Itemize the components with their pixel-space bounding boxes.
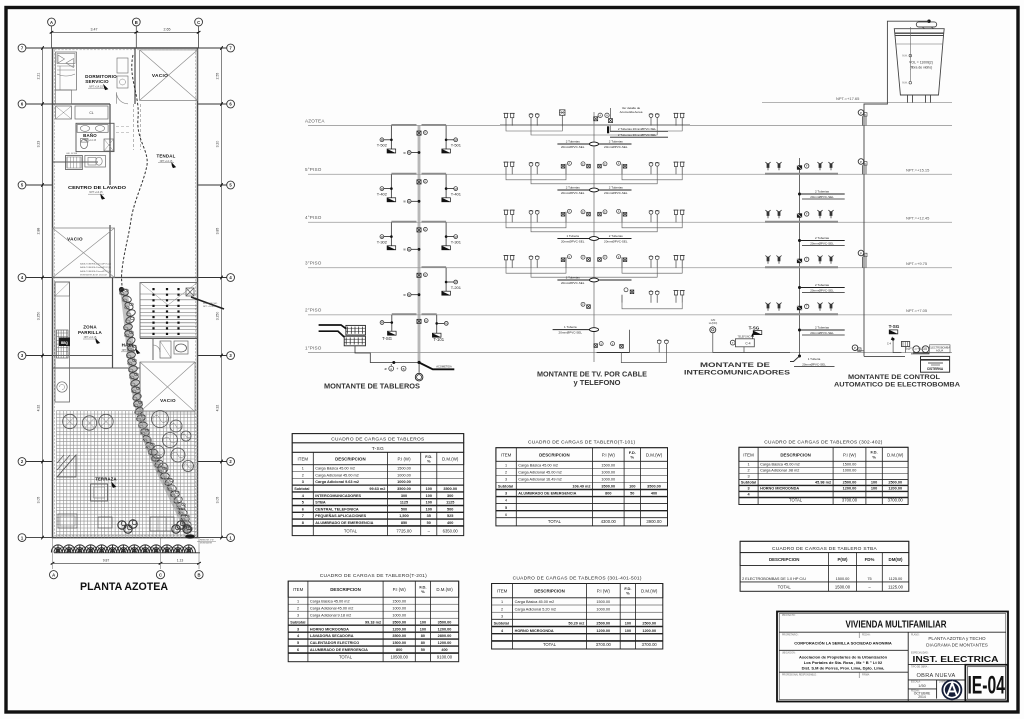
bus meter symbols [417, 131, 421, 135]
svg-text:6: 6 [505, 513, 507, 517]
svg-text:CUADRO DE CARGAS DE TABLER: CUADRO DE CARGAS DE TABLEROS (301-401-50… [513, 576, 642, 582]
svg-text:T-401: T-401 [451, 192, 462, 197]
svg-text:C: C [197, 20, 200, 25]
svg-text:50: 50 [421, 648, 425, 652]
svg-text:%: % [421, 589, 425, 594]
svg-text:(fibra de vidrio): (fibra de vidrio) [910, 65, 933, 69]
svg-text:20mmØPVC-SEL: 20mmØPVC-SEL [604, 240, 628, 244]
svg-text:4.32: 4.32 [215, 405, 219, 412]
svg-text:2.65: 2.65 [164, 28, 171, 32]
svg-text:C/N: C/N [711, 318, 716, 322]
svg-text:1500.00: 1500.00 [392, 641, 406, 645]
terrace tile hatch [56, 411, 197, 538]
svg-text:1: 1 [747, 462, 749, 466]
svg-text:1125: 1125 [446, 501, 454, 505]
electrobomba pumps [913, 346, 920, 353]
svg-text:HALL: HALL [122, 343, 135, 348]
svg-text:1125: 1125 [400, 501, 408, 505]
svg-text:1 Tuberia: 1 Tuberia [564, 325, 577, 329]
svg-text:6: 6 [302, 507, 304, 511]
svg-text:AUTOMATICO DE ELECTROBOMBA: AUTOMATICO DE ELECTROBOMBA [834, 381, 960, 388]
svg-text:D.M.(W): D.M.(W) [442, 457, 459, 462]
svg-text:DIAGRAMA DE MONTANTES: DIAGRAMA DE MONTANTES [926, 643, 988, 648]
svg-text:2 ELECTROBOMBAS DE 1.0 HP: 2 ELECTROBOMBAS DE 1.0 HP C/U [742, 577, 806, 581]
svg-text:VACIO: VACIO [152, 73, 168, 79]
interior wall row6 [53, 103, 111, 105]
bus meter symbols [417, 180, 421, 184]
svg-text:K: K [425, 273, 427, 277]
svg-text:2: 2 [505, 471, 507, 475]
stair balustrade dots [152, 288, 154, 290]
plan row axes circles left [18, 44, 26, 52]
svg-text:ITEM: ITEM [501, 453, 512, 458]
svg-text:2°PISO: 2°PISO [305, 308, 322, 313]
wall above stairs row4 [53, 277, 198, 279]
svg-text:20mmØPVC-SEL: 20mmØPVC-SEL [604, 191, 628, 195]
svg-text:9100.00: 9100.00 [437, 655, 453, 660]
right vertical dimension line [221, 48, 223, 538]
svg-text:1200.00: 1200.00 [596, 629, 610, 633]
svg-text:1000.00: 1000.00 [392, 606, 406, 610]
svg-text:OBRA NUEVA: OBRA NUEVA [917, 673, 956, 679]
svg-text:ITEM: ITEM [298, 457, 309, 462]
sheet number IE-04 box [965, 665, 1007, 702]
plan column axis B [132, 18, 140, 26]
svg-text:CUADRO DE CARGAS DE TABLER: CUADRO DE CARGAS DE TABLERO(T-201) [320, 573, 427, 579]
vacio top-right X box [140, 50, 198, 101]
svg-text:Carga Básica 45.00 m2: Carga Básica 45.00 m2 [515, 600, 555, 604]
svg-text:MONTANTE: MONTANTE [200, 542, 213, 545]
svg-text:Los Portales de Sta. Rosa , Mz: Los Portales de Sta. Rosa , Mz “ B ” Lt … [804, 660, 883, 665]
svg-text:4.32: 4.32 [37, 405, 41, 412]
svg-text:M: M [408, 248, 410, 252]
svg-text:3: 3 [747, 475, 749, 479]
panel T-402 branch [390, 174, 392, 198]
svg-text:Carga Adicional 5.20 m2: Carga Adicional 5.20 m2 [515, 607, 556, 611]
svg-text:P: P [854, 346, 856, 350]
svg-text:1200.00: 1200.00 [642, 629, 656, 633]
svg-text:3.20: 3.20 [215, 141, 219, 148]
control box [901, 342, 909, 347]
svg-text:DESCRIPCION: DESCRIPCION [769, 557, 800, 562]
intercom floor cluster y=267.7 [765, 266, 838, 268]
svg-text:CENTRO DE LAVADO: CENTRO DE LAVADO [68, 185, 126, 191]
especialidad row [908, 663, 1004, 665]
svg-text:Acometida Aerea: Acometida Aerea [620, 110, 643, 114]
svg-text:6: 6 [297, 648, 299, 652]
stair diagonal guard lines [140, 283, 168, 306]
svg-text:DESCRIPCION: DESCRIPCION [539, 453, 570, 458]
svg-text:1200.00: 1200.00 [392, 627, 406, 631]
pergola square [91, 484, 108, 501]
svg-text:1125.00: 1125.00 [888, 584, 903, 589]
svg-text:ACOMETIDA: ACOMETIDA [436, 364, 452, 368]
intercom riser bottom corner [798, 355, 801, 358]
tuberias conduit bar [553, 329, 598, 331]
svg-text:100: 100 [426, 501, 432, 505]
svg-text:2: 2 [297, 606, 299, 610]
svg-text:100: 100 [426, 487, 432, 491]
svg-text:A: A [390, 367, 392, 371]
floor level lines [308, 125, 952, 127]
tableros riser bar at floor T-302 [391, 221, 416, 223]
svg-text:1000.00: 1000.00 [843, 469, 857, 473]
svg-text:VACIO: VACIO [67, 237, 83, 242]
svg-text:FIRMA:: FIRMA: [862, 673, 870, 676]
svg-text:Carga Adicional 9.63 m2: Carga Adicional 9.63 m2 [315, 480, 359, 484]
svg-text:20mmØPVC-SEL: 20mmØPVC-SEL [561, 191, 585, 195]
wall row3 [53, 355, 113, 357]
svg-text:M: M [455, 187, 457, 191]
svg-text:2 Tuberias: 2 Tuberias [815, 326, 830, 330]
svg-text:3: 3 [302, 480, 304, 484]
svg-text:CL: CL [89, 111, 93, 115]
svg-text:3700.00: 3700.00 [642, 642, 658, 647]
2nd floor cell: T-SG and T-101 [392, 313, 417, 315]
azotea thick conduit band at tv riser [500, 124, 690, 126]
svg-text:M: M [381, 321, 383, 325]
svg-text:3500.00: 3500.00 [438, 620, 452, 624]
svg-text:HORNO MICROONDA: HORNO MICROONDA [760, 487, 799, 491]
svg-text:1°PISO: 1°PISO [305, 345, 322, 350]
svg-text:100: 100 [625, 629, 631, 633]
plan row axes circles right [227, 44, 235, 52]
svg-text:2.55: 2.55 [215, 73, 219, 80]
svg-text:3500.00: 3500.00 [392, 620, 406, 624]
svg-text:D.M.(W): D.M.(W) [436, 587, 453, 592]
svg-text:+: + [396, 367, 398, 371]
svg-text:DESCRIPCION: DESCRIPCION [335, 457, 366, 462]
svg-text:BBQ: BBQ [61, 341, 69, 345]
svg-text:ITEM: ITEM [293, 587, 304, 592]
terrace dark plant scribbles [118, 521, 126, 529]
svg-text:1 Tuberia: 1 Tuberia [566, 234, 579, 238]
svg-text:A: A [599, 114, 601, 118]
svg-text:99.63 m2: 99.63 m2 [369, 487, 385, 491]
bottom axis circle A [50, 571, 58, 579]
electrobomba feeder from tank [864, 21, 929, 356]
svg-text:A: A [50, 20, 53, 25]
terrace top wall [53, 367, 141, 369]
svg-text:20mmØPVC-SEL: 20mmØPVC-SEL [810, 331, 834, 335]
svg-text:3500.00: 3500.00 [647, 485, 661, 489]
svg-text:4°PISO: 4°PISO [305, 215, 322, 220]
cisterna [921, 356, 950, 372]
svg-text:DESCRIPCION: DESCRIPCION [780, 452, 811, 457]
svg-text:100: 100 [420, 620, 426, 624]
svg-text:500: 500 [401, 507, 407, 511]
panel T-201 branch [445, 268, 447, 292]
bus junction and totalizer meter [418, 361, 421, 364]
tv conduit U below first floor [621, 353, 666, 363]
title block project name row [779, 631, 1006, 633]
svg-text:100: 100 [871, 487, 877, 491]
svg-text:Carga Básica 45.00 m2: Carga Básica 45.00 m2 [518, 464, 558, 468]
svg-text:%: % [872, 454, 876, 459]
svg-text:1 Tuberia: 1 Tuberia [808, 357, 821, 361]
svg-text:5: 5 [302, 501, 304, 505]
pump suction pipes [893, 341, 905, 353]
svg-text:1125.00: 1125.00 [889, 577, 902, 581]
top dimension line 3.47 / 2.65 [52, 31, 199, 33]
intercom riser main vertical [799, 158, 801, 356]
svg-text:LAVADORA SECADORA: LAVADORA SECADORA [310, 634, 354, 638]
svg-text:100: 100 [629, 485, 635, 489]
svg-text:K: K [425, 319, 427, 323]
svg-text:VACIO: VACIO [160, 398, 176, 403]
tableros riser bar at floor T-201 [422, 266, 447, 268]
svg-text:50: 50 [630, 492, 634, 496]
intercom tuberia bars between floors [798, 193, 801, 196]
feeder wire from meter bank to bus [355, 346, 418, 363]
kitchen counter zona parrilla [55, 282, 70, 402]
svg-text:TERRAZA: TERRAZA [95, 477, 116, 482]
svg-text:CUADRO DE CARGAS DE TABLER: CUADRO DE CARGAS DE TABLERO(T-101) [528, 440, 635, 446]
svg-text:C-4: C-4 [745, 342, 750, 346]
svg-text:T-302: T-302 [377, 240, 388, 245]
svg-text:3700.00: 3700.00 [596, 642, 612, 647]
svg-text:M: M [455, 138, 457, 142]
svg-text:NPT.=+12.45: NPT.=+12.45 [906, 216, 930, 221]
bus meter symbols [417, 273, 421, 277]
svg-text:TIPO DE OBRA :: TIPO DE OBRA : [911, 666, 929, 669]
svg-text:CALENTADOR ELECTRICO: CALENTADOR ELECTRICO [310, 641, 359, 645]
svg-text:2 Tuberias: 2 Tuberias [609, 139, 624, 143]
terrace corner bed lines [57, 455, 76, 477]
svg-text:Carga Adicional 45.00 m2: Carga Adicional 45.00 m2 [518, 471, 561, 475]
svg-text:400: 400 [447, 521, 453, 525]
bus meter symbols [417, 228, 421, 232]
bottom axis circle B [195, 571, 203, 579]
tv antenna outlet left [560, 110, 566, 116]
svg-text:%: % [427, 459, 431, 464]
svg-text:P.I (W): P.I (W) [602, 453, 616, 458]
svg-text:20mmØPVC-SEL: 20mmØPVC-SEL [561, 281, 585, 285]
svg-text:HORNO MICROONDA: HORNO MICROONDA [310, 627, 349, 631]
svg-text:CENTRAL TELEFONICA: CENTRAL TELEFONICA [315, 507, 359, 511]
svg-text:NPT.+14.15: NPT.+14.15 [89, 191, 103, 194]
tv floor symbols at y=174.3 [504, 162, 507, 166]
svg-text:MONTANTE DE CONTROL: MONTANTE DE CONTROL [848, 374, 940, 381]
bus meter at 2nd floor [417, 319, 421, 323]
svg-text:%: % [626, 591, 630, 596]
svg-text:K: K [425, 228, 427, 232]
svg-text:MONTANTE DE TABLEROS: MONTANTE DE TABLEROS [324, 384, 420, 391]
svg-text:NPT.+14.15: NPT.+14.15 [84, 336, 97, 339]
svg-text:Subtotal: Subtotal [741, 481, 756, 485]
svg-text:P.I (W): P.I (W) [843, 452, 857, 457]
plan column axis A [48, 18, 56, 26]
svg-text:NPT.=+9.75: NPT.=+9.75 [906, 261, 928, 266]
svg-text:3.85: 3.85 [215, 228, 219, 235]
svg-text:y TELEFONO: y TELEFONO [574, 380, 622, 387]
svg-text:20mmØPVC-SEL: 20mmØPVC-SEL [559, 331, 583, 335]
winding conduit path dashed [122, 55, 148, 288]
svg-text:3: 3 [297, 627, 299, 631]
svg-text:ALUMBRADO DE EMERGENCIA: ALUMBRADO DE EMERGENCIA [310, 648, 368, 652]
closet CL [75, 106, 108, 119]
svg-text:INST. ELECTRICA: INST. ELECTRICA [913, 654, 999, 664]
svg-text:80: 80 [421, 634, 425, 638]
tv riser azotea cell pairs and loops [504, 113, 507, 117]
svg-text:10500.00: 10500.00 [390, 655, 408, 660]
svg-text:Carga Adicional 45.00 m2: Carga Adicional 45.00 m2 [310, 606, 353, 610]
svg-text:T-101: T-101 [433, 337, 444, 342]
svg-text:ø: ø [384, 367, 386, 371]
svg-text:A: A [52, 573, 55, 578]
svg-text:1: 1 [297, 599, 299, 603]
tv conduit U loops below floor line [506, 174, 566, 180]
svg-text:TOTAL: TOTAL [778, 584, 792, 589]
panel T-301 branch [445, 222, 447, 246]
title block vertical divider [907, 632, 909, 701]
vacio lower X box [140, 362, 195, 412]
panel T-502 branch [390, 126, 392, 150]
svg-text:AZOTEA: AZOTEA [305, 118, 325, 123]
lamina label cell [937, 679, 965, 681]
svg-text:2 Tuberias: 2 Tuberias [566, 185, 581, 189]
svg-text:SERVICIO: SERVICIO [85, 79, 109, 84]
panel T-302 branch [390, 222, 392, 246]
svg-text:T-SG: T-SG [749, 325, 760, 330]
svg-text:100: 100 [871, 481, 877, 485]
svg-text:20mmØPVC-SEL: 20mmØPVC-SEL [604, 145, 628, 149]
svg-text:1: 1 [501, 600, 503, 604]
svg-text:2 Tuberias: 2 Tuberias [815, 283, 830, 287]
svg-text:M: M [408, 293, 410, 297]
svg-text:K: K [425, 131, 427, 135]
svg-text:MONTANTE ALIM. 25mmØ: MONTANTE ALIM. 25mmØ [80, 274, 107, 277]
svg-text:20mmØPVC-SEL: 20mmØPVC-SEL [561, 145, 585, 149]
svg-text:M: M [381, 187, 383, 191]
svg-text:1000.00: 1000.00 [397, 473, 411, 477]
svg-text:BAJA TUBERIA 20mmØPVC(B): BAJA TUBERIA 20mmØPVC(B) [80, 266, 111, 269]
svg-text:3: 3 [505, 492, 507, 496]
svg-text:PLANTA AZOTEA: PLANTA AZOTEA [80, 581, 168, 593]
tuberias conduit bar [557, 279, 631, 281]
svg-text:T-SG: T-SG [382, 336, 392, 341]
svg-text:DESCRIPCION: DESCRIPCION [534, 589, 565, 594]
svg-text:AGUA: AGUA [936, 350, 943, 353]
svg-text:D.M.(W): D.M.(W) [646, 453, 663, 458]
svg-text:Subtotal: Subtotal [290, 620, 305, 624]
tv floor symbols at y=222.3 [504, 210, 507, 214]
svg-text:400: 400 [441, 648, 447, 652]
svg-text:NPT.+14.15: NPT.+14.15 [122, 349, 135, 352]
owner row [779, 649, 908, 651]
svg-text:2: 2 [501, 607, 503, 611]
svg-text:1000.00: 1000.00 [397, 480, 411, 484]
svg-text:NPT.+14.15: NPT.+14.15 [89, 84, 103, 88]
svg-text:3500.00: 3500.00 [443, 487, 457, 491]
svg-text:T-SG: T-SG [372, 446, 384, 452]
svg-text:1500.00: 1500.00 [836, 577, 850, 581]
svg-text:T-501: T-501 [451, 143, 462, 148]
azotea tuberia labels under line [607, 126, 609, 133]
svg-text:ITEM: ITEM [743, 452, 754, 457]
svg-text:NPT.+14.15: NPT.+14.15 [160, 160, 173, 163]
svg-text:500: 500 [447, 507, 453, 511]
svg-text:M: M [408, 200, 410, 204]
svg-text:B: B [135, 20, 138, 25]
svg-text:C: C [159, 573, 162, 578]
svg-text:CUADRO DE CARGAS DE TABLER: CUADRO DE CARGAS DE TABLERO STBA [772, 546, 878, 552]
svg-text:35: 35 [427, 514, 431, 518]
svg-text:6350.00: 6350.00 [443, 529, 459, 534]
drain black oval [185, 534, 195, 538]
svg-text:DM(W): DM(W) [889, 557, 903, 562]
svg-text:3500.00: 3500.00 [397, 487, 411, 491]
svg-text:M: M [381, 235, 383, 239]
svg-text:STBA: STBA [315, 501, 326, 505]
intercom floor cluster y=222.3 [765, 221, 838, 223]
svg-text:TOTAL: TOTAL [339, 655, 353, 660]
svg-text:T-SG: T-SG [889, 324, 900, 329]
svg-text:LL(NO): LL(NO) [709, 321, 718, 325]
svg-text:3.23: 3.23 [37, 141, 41, 148]
architect logo circle [942, 679, 963, 700]
svg-text:INTERCOMUNICADORES: INTERCOMUNICADORES [315, 494, 361, 498]
tuberias conduit bar [557, 189, 631, 191]
table CUADRO DE CARGAS T-SG [292, 434, 464, 443]
svg-text:1500.00: 1500.00 [835, 584, 851, 589]
tuberias conduit bar [557, 238, 631, 240]
stone walkway scribble path [124, 292, 189, 532]
svg-text:UBICACION :: UBICACION : [782, 651, 796, 654]
svg-text:3°PISO: 3°PISO [305, 261, 322, 266]
plan column axis C [195, 18, 203, 26]
svg-text:20mmØPVC-SEL: 20mmØPVC-SEL [810, 242, 834, 246]
svg-text:3.250: 3.250 [215, 312, 219, 321]
left vertical dimension line [42, 48, 44, 538]
bathroom BAÑO fixtures [76, 123, 114, 151]
svg-text:BAJA TUBERIA 20mmØPVC(C): BAJA TUBERIA 20mmØPVC(C) [80, 270, 111, 273]
svg-text:PLANTA AZOTEA y TECHO: PLANTA AZOTEA y TECHO [928, 636, 986, 641]
svg-text:3.05: 3.05 [37, 497, 41, 504]
svg-text:99.18 m2: 99.18 m2 [365, 620, 381, 624]
svg-text:3: 3 [501, 614, 503, 618]
svg-text:100: 100 [420, 627, 426, 631]
panel T-401 branch [445, 174, 447, 198]
svg-text:3.47: 3.47 [91, 28, 98, 32]
svg-text:MONTANTE DE: MONTANTE DE [700, 362, 771, 369]
svg-text:1500.00: 1500.00 [596, 600, 610, 604]
svg-text:Subtotal: Subtotal [498, 485, 513, 489]
svg-text:2.88: 2.88 [37, 228, 41, 235]
svg-text:4: 4 [505, 499, 507, 503]
svg-text:2 Tuberias: 2 Tuberias [566, 139, 581, 143]
svg-text:BAJA TUBERIA 20mmØPVC(A): BAJA TUBERIA 20mmØPVC(A) [80, 263, 111, 266]
svg-text:9.87: 9.87 [103, 558, 110, 562]
door symbol top right of stairs [186, 288, 194, 296]
tuberias conduit bar [557, 143, 631, 145]
svg-text:REBOSE 2"Ø: REBOSE 2"Ø [200, 540, 214, 542]
tv riser bottom entry [594, 344, 598, 348]
svg-text:C-4: C-4 [887, 341, 892, 345]
svg-text:525: 525 [447, 514, 453, 518]
svg-text:P.I (W): P.I (W) [597, 589, 611, 594]
svg-text:1500.00: 1500.00 [397, 467, 411, 471]
porter phone box C-4 [735, 339, 754, 347]
tv floor symbols at y=267.7 [504, 256, 507, 260]
svg-text:NPT.+16.80: NPT.+16.80 [203, 306, 215, 308]
svg-text:NPT.=+7.05: NPT.=+7.05 [906, 308, 928, 313]
svg-text:CORPORACIÓN LA SEMILLA SOCIEDA: CORPORACIÓN LA SEMILLA SOCIEDAD ANONIMA [794, 640, 892, 645]
svg-text:400: 400 [651, 492, 657, 496]
svg-text:TELEFONO: TELEFONO [738, 336, 751, 339]
svg-text:2500.00: 2500.00 [888, 481, 902, 485]
svg-text:100: 100 [426, 507, 432, 511]
